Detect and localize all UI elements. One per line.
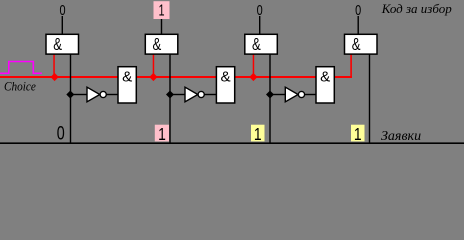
AND gate U4 [345,34,378,54]
node req2 bottom "1" (yellow) [251,125,265,142]
svg-text:0: 0 [59,1,65,18]
wire top bit1 [161,19,162,35]
AND gate U3 [245,34,277,54]
svg-text:0: 0 [355,1,361,18]
wire: inverter G3 output [305,94,317,95]
svg-text:&: & [352,35,361,54]
inverter G2 [185,87,204,102]
AND gate V1 (second level) [118,67,136,103]
wire: inverter G2 input [170,94,185,95]
wire top bit2 [259,16,260,35]
wire top bit0 [62,16,63,35]
bottom border line [0,142,464,144]
junction: black node B2 [166,91,174,99]
inverter G3 [285,87,304,102]
wire: inverter G1 output [106,94,118,95]
inverter G1 [87,87,106,102]
junction: black node B1 [66,91,74,99]
wire: red riser to gate U4 (bus end) [350,54,352,78]
wire: inverter G1 input [71,94,88,95]
node req3 bottom "1" (yellow) [351,125,365,142]
wire: request line Q0 vertical [70,54,71,143]
svg-text:Choice: Choice [4,79,36,94]
wire top bit3 [358,16,359,35]
junction: red node A1 [51,73,59,81]
junction: black node B3 [266,91,274,99]
svg-text:0: 0 [257,1,263,18]
wire: red Choice bus horizontal [0,76,352,78]
wire: inverter G2 output [204,94,216,95]
svg-text:&: & [252,35,261,54]
svg-text:Заявки: Заявки [381,129,421,144]
svg-text:1: 1 [158,2,164,19]
svg-text:0: 0 [57,121,65,144]
node req1 bottom "1" (pink) [155,125,169,142]
wire: red riser to gate U2 [153,54,155,77]
svg-text:&: & [320,68,330,85]
svg-text:Код за избор: Код за избор [381,1,453,16]
wire: inverter G3 input [270,94,285,95]
wire: magenta pulse waveform [0,62,42,74]
wire: red riser to gate U1 [53,54,55,77]
node bit1 top "1" (pink) [154,1,170,19]
svg-text:&: & [153,35,162,54]
junction: red node A2 [149,73,157,81]
wire: request line Q3 vertical [369,54,370,143]
svg-text:&: & [221,68,231,85]
AND gate V2 (second level) [216,67,234,103]
AND gate V3 (second level) [316,67,334,103]
junction: red node A3 [249,73,257,81]
wire: request line Q1 vertical [169,54,170,143]
wire: red riser to gate U3 [253,54,255,77]
svg-text:1: 1 [254,126,262,144]
svg-text:1: 1 [158,126,166,144]
AND gate U2 [145,34,178,54]
AND gate U1 [46,34,79,54]
svg-text:&: & [53,35,62,54]
svg-text:1: 1 [354,126,362,144]
svg-text:&: & [122,68,132,85]
wire: request line Q2 vertical [269,54,270,143]
